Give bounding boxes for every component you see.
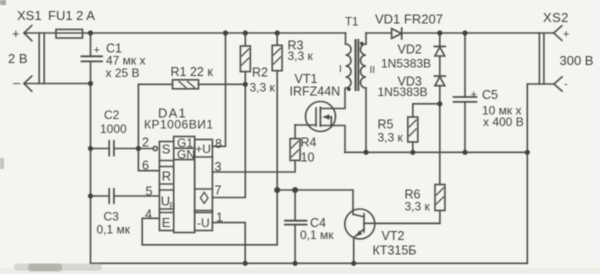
svg-text:3,3 к: 3,3 к xyxy=(405,200,431,214)
IC DA1 КР1006ВИ1 timer body xyxy=(153,137,212,233)
diode VD1 xyxy=(392,28,402,39)
T1 phasing dot secondary xyxy=(360,42,364,46)
diode VD3 xyxy=(434,76,445,184)
svg-text:0,1 мк: 0,1 мк xyxy=(97,223,131,237)
svg-text:R1 22 к: R1 22 к xyxy=(171,65,214,79)
connector XS2 xyxy=(527,26,562,91)
transistor VT1 IRFZ44N MOSFET xyxy=(295,89,345,153)
svg-text:C5: C5 xyxy=(482,88,498,102)
svg-text:х 400 В: х 400 В xyxy=(483,115,524,129)
svg-text:6: 6 xyxy=(142,159,149,173)
svg-text:–: – xyxy=(13,75,21,90)
transformer T1 primary winding I xyxy=(346,33,352,88)
svg-text:+U: +U xyxy=(195,142,211,156)
resistor R3 xyxy=(272,33,282,190)
svg-text:1000: 1000 xyxy=(100,122,127,136)
IC pin numbers xyxy=(142,136,223,225)
svg-text:0,1 мк: 0,1 мк xyxy=(300,228,334,242)
S box column xyxy=(159,142,173,231)
svg-text:FU1 2 A: FU1 2 A xyxy=(48,8,95,23)
wire left bus (minus rail) xyxy=(90,33,92,263)
svg-text:VD1 FR207: VD1 FR207 xyxy=(375,12,443,27)
svg-text:1N5383В: 1N5383В xyxy=(381,57,431,71)
svg-text:+: + xyxy=(563,29,569,41)
resistor R1 xyxy=(138,80,245,149)
svg-text:XS2: XS2 xyxy=(543,10,569,25)
wire XS2 vertical xyxy=(526,84,528,263)
svg-text:300 В: 300 В xyxy=(560,53,594,68)
svg-text:+: + xyxy=(12,26,20,41)
capacitor C2 xyxy=(91,141,154,156)
wire pin8 xyxy=(212,33,225,146)
svg-text:2: 2 xyxy=(142,136,149,150)
svg-text:I: I xyxy=(339,64,342,75)
connector XS1 xyxy=(24,26,44,92)
svg-text:-: - xyxy=(564,79,568,91)
svg-text:C3: C3 xyxy=(104,210,120,224)
diode VD2 xyxy=(434,33,445,76)
wire bottom rail xyxy=(91,262,528,264)
svg-text:2 В: 2 В xyxy=(8,51,28,66)
svg-text:1: 1 xyxy=(216,211,223,225)
capacitor C3 xyxy=(91,189,160,204)
svg-text:VD2: VD2 xyxy=(398,43,422,57)
svg-text:10: 10 xyxy=(301,151,315,165)
fuse FU1 xyxy=(56,29,83,38)
transformer T1 secondary winding II xyxy=(361,33,367,152)
resistor R5 xyxy=(408,104,440,153)
svg-text:C2: C2 xyxy=(104,108,120,122)
wire node A to VT2 base xyxy=(277,190,353,214)
svg-text:R: R xyxy=(170,202,176,211)
svg-text:GN: GN xyxy=(177,148,195,162)
svg-text:+: + xyxy=(94,45,100,57)
wire pin4 xyxy=(142,190,277,245)
IC box labels xyxy=(161,136,211,230)
svg-text:КТ315Б: КТ315Б xyxy=(373,244,417,258)
T1 phasing dot primary xyxy=(347,87,351,91)
svg-text:КР1006ВИ1: КР1006ВИ1 xyxy=(144,118,214,132)
svg-text:R5: R5 xyxy=(378,118,394,132)
svg-text:R: R xyxy=(162,169,171,184)
capacitor C5 xyxy=(454,33,477,152)
svg-text:1N5383В: 1N5383В xyxy=(378,85,428,99)
svg-text:х 25 В: х 25 В xyxy=(106,66,140,80)
svg-text:3,3 к: 3,3 к xyxy=(288,49,314,63)
diamond symbol xyxy=(200,192,208,203)
svg-text:4: 4 xyxy=(145,208,152,222)
svg-text:-U: -U xyxy=(197,216,210,230)
svg-text:IRFZ44N: IRFZ44N xyxy=(290,85,341,99)
pin2 inversion circle xyxy=(153,146,157,150)
resistor R4 xyxy=(290,125,300,161)
svg-text:3,3 к: 3,3 к xyxy=(378,131,404,145)
svg-text:3,3 к: 3,3 к xyxy=(250,81,276,95)
scan artifacts xyxy=(0,0,102,272)
svg-text:8: 8 xyxy=(215,137,222,151)
wire pin6 stub xyxy=(138,149,159,171)
wire pin3 xyxy=(212,160,295,172)
svg-text:S: S xyxy=(162,142,171,157)
transformer T1 core xyxy=(356,40,359,90)
resistor R6 xyxy=(375,185,445,224)
svg-text:5: 5 xyxy=(146,185,153,199)
svg-text:VT2: VT2 xyxy=(382,229,405,243)
svg-text:+: + xyxy=(471,89,477,101)
svg-text:II: II xyxy=(370,65,376,76)
svg-text:T1: T1 xyxy=(345,17,358,29)
wire top bus right (HV) xyxy=(366,32,554,34)
transistor VT2 КТ315Б xyxy=(345,209,440,263)
+U output column xyxy=(195,140,213,231)
svg-text:R4: R4 xyxy=(301,136,317,150)
wire input bottom rail xyxy=(24,83,91,85)
svg-text:3: 3 xyxy=(215,160,222,174)
wire pin1 xyxy=(212,223,245,264)
wire pin7 xyxy=(212,84,245,197)
svg-text:7: 7 xyxy=(215,184,222,198)
svg-text:R2: R2 xyxy=(252,66,268,80)
svg-text:E: E xyxy=(162,215,171,230)
capacitor C4 xyxy=(285,190,307,263)
capacitor C1 xyxy=(82,56,103,61)
svg-text:XS1: XS1 xyxy=(17,8,42,23)
resistor R2 xyxy=(240,33,250,84)
wire top bus left (+2V) xyxy=(24,32,346,34)
wire HV return bus xyxy=(345,151,527,153)
